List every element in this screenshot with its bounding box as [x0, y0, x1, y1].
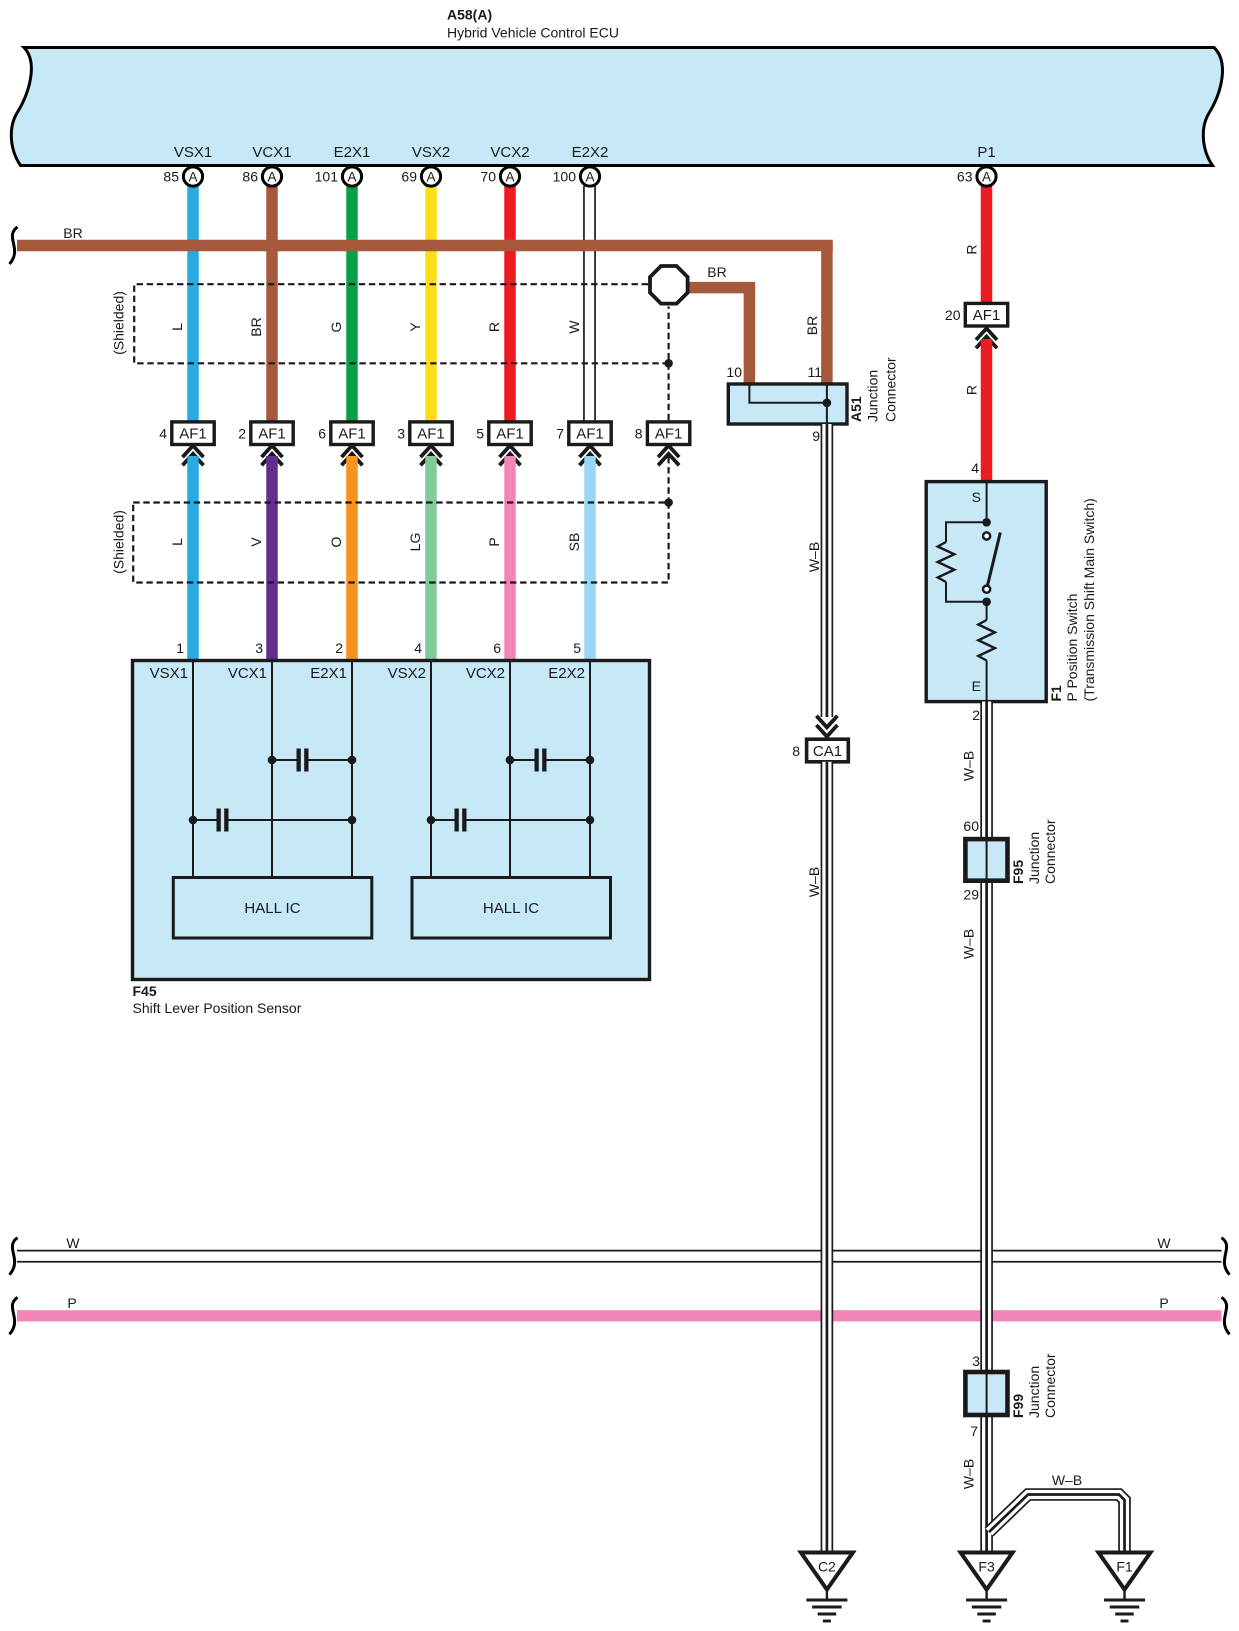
svg-text:VSX1: VSX1: [174, 144, 212, 161]
connector AF1 pin 20: [965, 303, 1007, 326]
svg-text:P: P: [1159, 1295, 1168, 1311]
svg-text:BR: BR: [63, 225, 82, 241]
svg-text:2: 2: [972, 707, 980, 723]
svg-text:E: E: [972, 678, 981, 694]
chevrons below AF1 pin 2: [262, 446, 283, 458]
svg-text:Shift Lever Position Sensor: Shift Lever Position Sensor: [133, 1000, 302, 1016]
svg-text:A: A: [347, 169, 356, 184]
switch contact bottom: [983, 586, 990, 593]
svg-text:AF1: AF1: [576, 425, 604, 442]
ground C2: [801, 1553, 853, 1590]
connector AF1 pin 2: [251, 422, 293, 445]
svg-text:(Shielded): (Shielded): [111, 510, 127, 574]
svg-text:2: 2: [238, 425, 246, 441]
svg-text:5: 5: [573, 640, 581, 656]
connector AF1 pin 3: [410, 422, 452, 445]
connector AF1 pin 8: [647, 422, 689, 445]
svg-text:F1: F1: [1116, 1559, 1133, 1575]
break mark W left: [10, 1238, 18, 1275]
svg-text:3: 3: [397, 425, 405, 441]
F45 internal wire VSX1: [192, 661, 194, 878]
svg-text:VSX1: VSX1: [150, 665, 188, 682]
svg-text:CA1: CA1: [813, 743, 842, 760]
svg-text:5: 5: [476, 425, 484, 441]
svg-text:F3: F3: [978, 1559, 995, 1575]
svg-text:HALL IC: HALL IC: [483, 900, 539, 917]
svg-text:63: 63: [957, 169, 973, 185]
wire P trunk: [17, 1310, 1222, 1321]
svg-text:AF1: AF1: [338, 425, 366, 442]
svg-text:W–B: W–B: [806, 542, 822, 572]
svg-text:4: 4: [414, 640, 422, 656]
svg-text:A: A: [188, 169, 197, 184]
svg-text:86: 86: [242, 169, 258, 185]
svg-text:SB: SB: [566, 533, 582, 552]
svg-text:2: 2: [335, 640, 343, 656]
resistor branch: [946, 522, 987, 542]
svg-text:P: P: [67, 1295, 76, 1311]
connector AF1 pin 4: [172, 422, 214, 445]
svg-text:P Position Switch: P Position Switch: [1064, 594, 1080, 702]
svg-text:(Transmission Shift Main Switc: (Transmission Shift Main Switch): [1081, 498, 1097, 701]
svg-text:101: 101: [315, 169, 339, 185]
terminal E2X2 pin 100 circle A: [580, 167, 599, 186]
svg-text:W–B: W–B: [806, 867, 822, 897]
svg-text:Connector: Connector: [1042, 819, 1058, 884]
svg-text:10: 10: [726, 364, 742, 380]
switch blade: [988, 533, 1001, 586]
connector F99: [965, 1372, 1007, 1415]
svg-text:A: A: [585, 169, 594, 184]
svg-text:F95: F95: [1010, 860, 1026, 884]
svg-text:VSX2: VSX2: [388, 665, 426, 682]
svg-text:20: 20: [945, 307, 961, 323]
svg-text:AF1: AF1: [417, 425, 445, 442]
wire W trunk: [17, 1250, 1222, 1263]
svg-text:7: 7: [556, 425, 564, 441]
svg-text:60: 60: [963, 818, 979, 834]
junction dot shield box2: [664, 498, 673, 507]
svg-text:A: A: [426, 169, 435, 184]
svg-text:F45: F45: [133, 983, 157, 999]
terminal VCX1 pin 86 circle A: [262, 167, 281, 186]
svg-text:AF1: AF1: [179, 425, 207, 442]
chevrons below AF1 pin 4: [183, 446, 204, 458]
svg-text:(Shielded): (Shielded): [111, 291, 127, 355]
chevrons below AF1 pin 6: [342, 446, 363, 458]
junction dot shield box1: [664, 359, 673, 368]
svg-text:R: R: [964, 244, 980, 254]
svg-text:A: A: [267, 169, 276, 184]
break mark P right: [1222, 1297, 1230, 1334]
svg-text:85: 85: [163, 169, 179, 185]
svg-text:P: P: [486, 537, 502, 546]
F45 internal wire VSX2: [430, 661, 432, 878]
svg-text:3: 3: [972, 1353, 980, 1369]
svg-text:29: 29: [963, 887, 979, 903]
wire BR trunk drop to A51 pin 11: [821, 245, 833, 384]
svg-text:AF1: AF1: [973, 307, 1001, 324]
svg-text:Y: Y: [407, 322, 423, 332]
break mark W right: [1222, 1238, 1230, 1275]
break mark BR left: [10, 227, 18, 264]
chevrons above CA1: [816, 716, 837, 728]
wire W-B branch to F1 ground: [989, 1495, 1125, 1553]
svg-text:AF1: AF1: [655, 425, 683, 442]
terminal E2X1 pin 101 circle A: [342, 167, 361, 186]
svg-text:8: 8: [792, 743, 800, 759]
svg-text:BR: BR: [248, 317, 264, 336]
component F45 box: [133, 661, 650, 980]
svg-text:O: O: [328, 536, 344, 547]
A51 internal wire: [749, 384, 827, 403]
svg-text:LG: LG: [407, 533, 423, 552]
svg-text:BR: BR: [804, 316, 820, 335]
svg-text:W–B: W–B: [1052, 1472, 1082, 1488]
svg-text:E2X1: E2X1: [334, 144, 371, 161]
chevrons below AF1 pin 8: [658, 446, 679, 458]
capacitor C (VSX2-E2X2): [431, 819, 455, 821]
svg-text:Junction: Junction: [865, 370, 881, 422]
svg-text:R: R: [964, 385, 980, 395]
wire G E2X1: [346, 186, 358, 424]
svg-text:100: 100: [553, 169, 577, 185]
F45 internal wire E2X1: [351, 661, 353, 878]
HALL IC 1: [173, 878, 371, 939]
svg-text:G: G: [328, 322, 344, 333]
chevrons below AF1 pin 5: [500, 446, 521, 458]
ground F1: [1099, 1553, 1151, 1590]
svg-text:E2X2: E2X2: [548, 665, 585, 682]
F45 internal wire VCX1: [271, 661, 273, 878]
svg-text:6: 6: [318, 425, 326, 441]
resistor lower: [986, 602, 988, 620]
F45 internal wire E2X2: [589, 661, 591, 878]
switch contact top: [983, 532, 990, 539]
svg-text:VSX2: VSX2: [412, 144, 450, 161]
wire BR octagon to A51 pin 10: [668, 282, 755, 294]
svg-text:A: A: [982, 169, 991, 184]
svg-text:R: R: [486, 322, 502, 332]
break mark P left: [10, 1297, 18, 1334]
svg-text:6: 6: [493, 640, 501, 656]
wire LG to F45 pin 4: [425, 456, 437, 661]
wire W-B F1 to F3 ground: [980, 702, 993, 1553]
svg-text:W: W: [1157, 1235, 1171, 1251]
svg-text:AF1: AF1: [496, 425, 524, 442]
shield box 1 (Shielded): [134, 284, 668, 363]
F1 internal wires: [986, 482, 988, 523]
chevrons below AF1 pin 3: [421, 446, 442, 458]
capacitor C (VCX2-E2X2): [510, 759, 535, 761]
shield octagon: [650, 266, 688, 304]
capacitor C (VCX1-E2X1): [272, 759, 297, 761]
HALL IC 2: [412, 878, 611, 939]
wire R P1: [981, 186, 993, 305]
svg-text:W: W: [566, 320, 582, 334]
chevrons below AF1 pin 7: [580, 446, 601, 458]
svg-text:BR: BR: [707, 264, 726, 280]
svg-text:E2X2: E2X2: [572, 144, 609, 161]
svg-text:L: L: [169, 538, 185, 546]
svg-text:VCX2: VCX2: [466, 665, 505, 682]
wire V to F45 pin 3: [266, 456, 278, 661]
svg-text:V: V: [248, 537, 264, 547]
svg-text:Hybrid Vehicle Control ECU: Hybrid Vehicle Control ECU: [447, 25, 619, 41]
svg-text:69: 69: [401, 169, 417, 185]
svg-text:Connector: Connector: [1042, 1353, 1058, 1418]
svg-text:VCX2: VCX2: [490, 144, 529, 161]
svg-text:F99: F99: [1010, 1394, 1026, 1418]
svg-text:AF1: AF1: [258, 425, 286, 442]
junction dot A51: [823, 399, 832, 408]
svg-text:Connector: Connector: [883, 357, 899, 422]
terminal VSX1 pin 85 circle A: [183, 167, 202, 186]
svg-text:3: 3: [255, 640, 263, 656]
chevrons below AF1 pin 20: [976, 328, 997, 340]
connector AF1 pin 6: [331, 422, 373, 445]
F45 internal wire VCX2: [509, 661, 511, 878]
capacitor C (VSX1-E2X1): [193, 819, 217, 821]
svg-text:W–B: W–B: [961, 751, 977, 781]
svg-text:F1: F1: [1048, 685, 1064, 702]
svg-text:70: 70: [480, 169, 496, 185]
svg-text:W–B: W–B: [961, 929, 977, 959]
svg-text:8: 8: [635, 425, 643, 441]
svg-text:E2X1: E2X1: [310, 665, 347, 682]
wire L to F45 pin 1: [187, 456, 199, 661]
svg-text:4: 4: [159, 425, 167, 441]
svg-text:L: L: [169, 323, 185, 331]
svg-text:P1: P1: [977, 144, 995, 161]
wire BR VCX1: [266, 186, 278, 424]
connector CA1 pin 8: [807, 739, 849, 762]
svg-text:9: 9: [812, 428, 820, 444]
terminal VSX2 pin 69 circle A: [421, 167, 440, 186]
connector AF1 pin 5: [489, 422, 531, 445]
svg-text:HALL IC: HALL IC: [244, 900, 300, 917]
wire R VCX2: [504, 186, 516, 424]
wire W-B A51 to CA1: [821, 424, 834, 717]
svg-text:W–B: W–B: [961, 1459, 977, 1489]
terminal VCX2 pin 70 circle A: [500, 167, 519, 186]
svg-text:11: 11: [807, 364, 822, 380]
svg-text:VCX1: VCX1: [252, 144, 291, 161]
wire W-B CA1 to C2 ground: [821, 762, 834, 1553]
svg-text:A58(A): A58(A): [447, 7, 492, 23]
svg-text:A: A: [505, 169, 514, 184]
svg-text:1: 1: [176, 640, 184, 656]
shield drain dashed to box2: [667, 457, 669, 503]
wire Y VSX2: [425, 186, 437, 424]
wire SB to F45 pin 5: [584, 456, 596, 661]
svg-text:C2: C2: [818, 1559, 836, 1575]
svg-text:4: 4: [971, 460, 979, 476]
svg-text:Junction: Junction: [1026, 832, 1042, 884]
connector F95: [965, 839, 1007, 881]
ECU A58(A) band: [11, 48, 1222, 166]
wire O to F45 pin 2: [346, 456, 358, 661]
wire BR trunk horizontal: [17, 240, 833, 252]
shield drain dashed line: [667, 363, 669, 422]
wire P to F45 pin 6: [504, 456, 516, 661]
terminal P1 pin 63 circle A: [977, 167, 996, 186]
connector A51 box: [728, 384, 847, 424]
component F1 box: [926, 482, 1046, 702]
ground F3: [961, 1553, 1013, 1590]
svg-text:W: W: [66, 1235, 80, 1251]
svg-text:S: S: [972, 489, 981, 505]
svg-text:7: 7: [970, 1423, 978, 1439]
wire L VSX1: [187, 186, 199, 424]
wire W from E2X2: [583, 186, 596, 423]
svg-text:Junction: Junction: [1026, 1366, 1042, 1418]
svg-text:A51: A51: [848, 396, 864, 422]
connector AF1 pin 7: [569, 422, 611, 445]
svg-text:VCX1: VCX1: [228, 665, 267, 682]
shield box 2 (Shielded): [133, 503, 668, 583]
wire R to F1: [981, 339, 993, 482]
